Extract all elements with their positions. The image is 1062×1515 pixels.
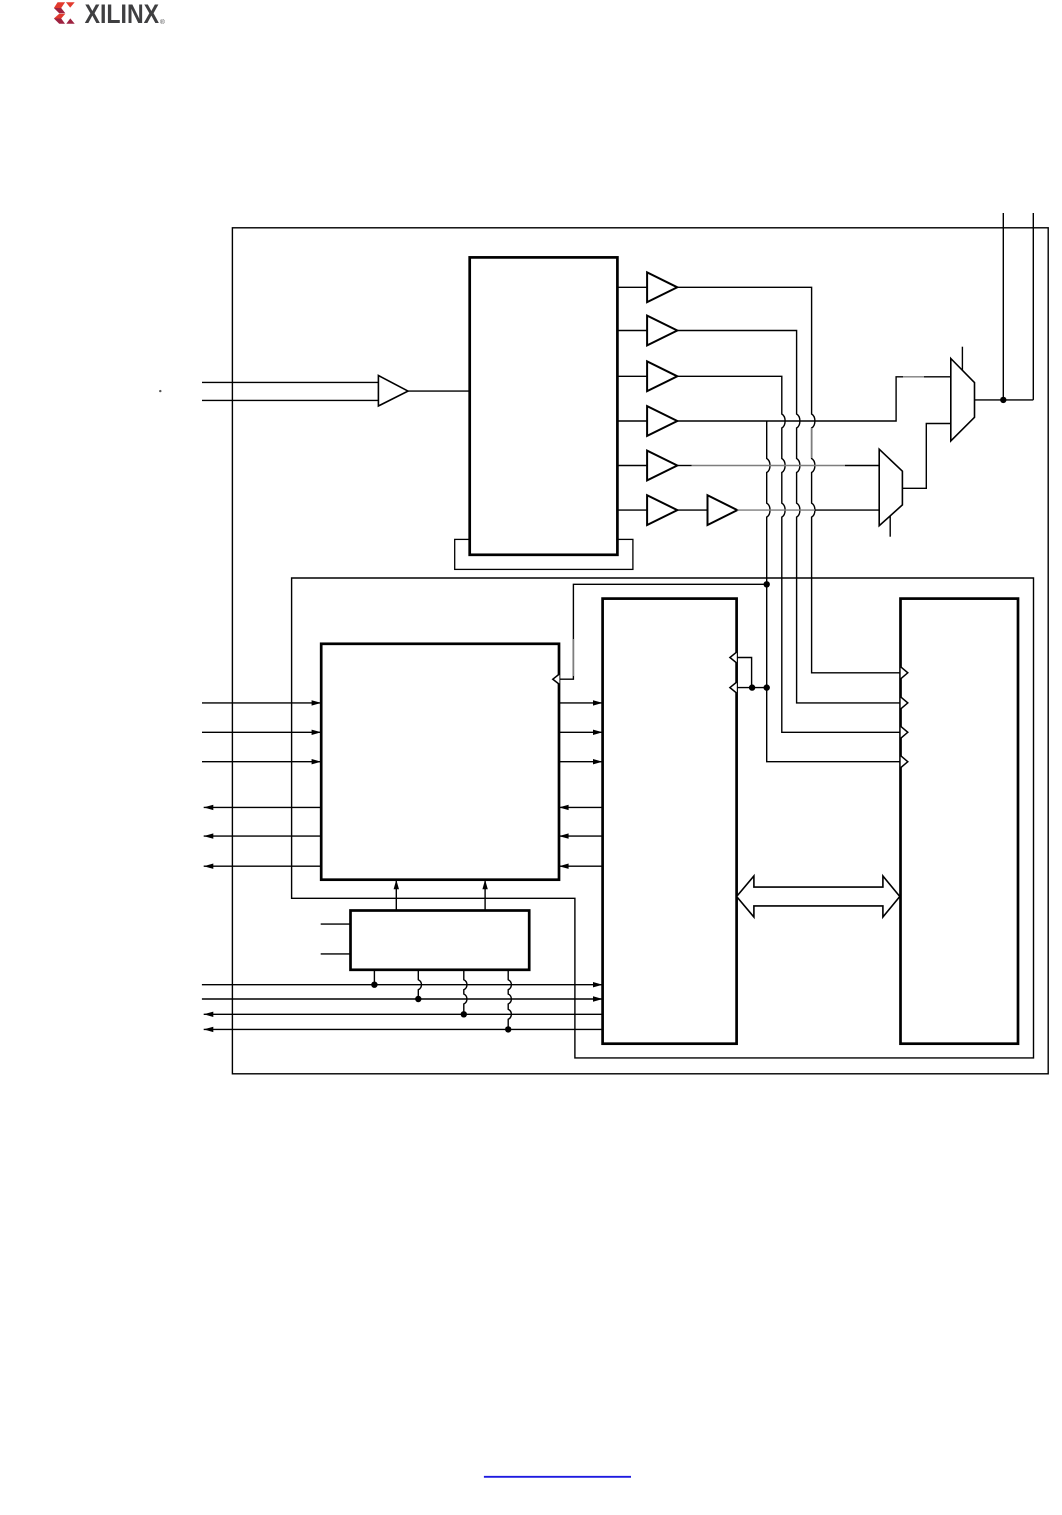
wire mux U4 output to mux U3 <box>902 424 950 489</box>
buffer B2 <box>647 316 677 346</box>
controller block U1 <box>470 257 618 554</box>
left tall block U7 <box>603 599 737 1044</box>
buffer B4 <box>647 406 677 436</box>
Xilinx logo <box>54 0 165 29</box>
wire B6 to B7 <box>677 509 707 511</box>
wire net GTS2 (B7 output) <box>737 509 815 511</box>
bottom bus wires in <box>202 985 603 999</box>
stray dot speck <box>159 390 161 392</box>
arrowheads out left <box>204 805 214 869</box>
wire GSR detour to big block <box>559 584 766 679</box>
wire net GCK2 (B2 output) <box>677 331 900 703</box>
wire net GTS1 (B5 output) <box>678 465 692 467</box>
mux U4 select stub <box>889 516 891 537</box>
bottom bus wires out <box>204 1014 603 1029</box>
wire mux U3 output to pins <box>975 399 1034 401</box>
wire net GSR branch (down to blocks) <box>767 421 901 762</box>
pin wire TDO (vertical to top) <box>1002 213 1004 400</box>
buffer B5 <box>647 451 677 481</box>
input buffer U2 <box>378 376 408 407</box>
outer device boundary <box>232 228 1048 1074</box>
switch matrix region boundary (L-shaped) <box>292 578 1034 1058</box>
wire buffer to controller <box>408 390 470 392</box>
buffer B3 <box>647 361 677 391</box>
small block U6 <box>351 911 530 970</box>
open arrowheads into U8 <box>901 667 908 768</box>
open arrowheads into U7 right edge <box>730 652 737 693</box>
buffer B7 <box>708 495 738 525</box>
wires U7 to U5 (returns) <box>559 807 603 866</box>
arrowheads into U7 <box>593 700 603 764</box>
open arrowhead into U5 top right <box>553 674 560 684</box>
footer link rule <box>484 1476 631 1478</box>
input wires to U5 left <box>202 703 321 762</box>
svg-text:®: ® <box>160 18 165 26</box>
wires U5 right to U7 <box>559 703 603 762</box>
wire net GCK1 (B1 output) <box>677 287 900 673</box>
bidirectional bus arrow U7-U8 <box>737 876 900 917</box>
buffer B1 <box>647 272 677 302</box>
mux U4 (lower) <box>879 449 902 526</box>
mux U3 (upper) <box>951 359 975 442</box>
wire net GCK3 (B3 output) <box>677 376 900 732</box>
up arrows U6 to U5 <box>396 880 485 911</box>
svg-text:XILINX: XILINX <box>85 0 160 29</box>
socket plate under controller box <box>455 539 633 569</box>
small block stubs <box>321 924 351 954</box>
input bus wires <box>202 382 378 400</box>
pin wire TDI (vertical to top) <box>1032 213 1034 400</box>
output wires from U5 left <box>204 807 322 866</box>
right tall block U8 <box>901 599 1019 1044</box>
wire net GSR (B4 output to mux U3) <box>677 377 903 421</box>
gray overlay on GCK1 vertical <box>811 428 813 458</box>
arrowheads into U5 <box>312 700 322 764</box>
big block U5 <box>321 644 559 880</box>
mux U3 select stub <box>961 347 963 371</box>
wire U7 inputs row <box>737 687 767 689</box>
arrowheads into U5 right <box>559 805 569 869</box>
jog wire at U7 right edge <box>737 658 752 688</box>
buffer input stubs <box>617 287 647 510</box>
buffer B6 <box>647 495 677 525</box>
drop wires from U6 <box>373 970 375 985</box>
